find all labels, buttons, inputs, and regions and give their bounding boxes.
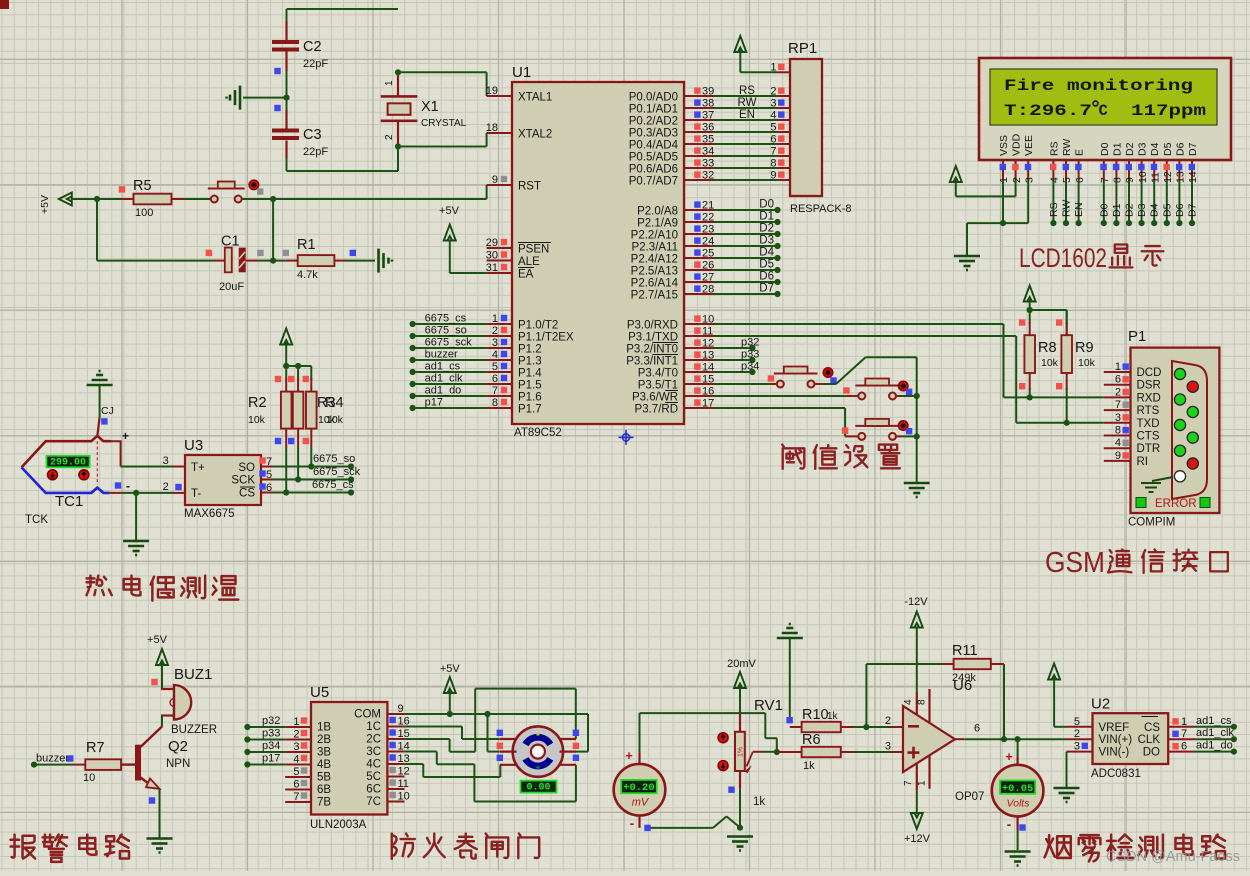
svg-text:OP07: OP07 [955, 791, 984, 803]
pin-end marker [274, 105, 280, 111]
svg-text:P0.4/AD4: P0.4/AD4 [629, 140, 679, 152]
svg-text:7: 7 [266, 456, 272, 468]
pin-end marker [644, 825, 650, 831]
wire 2C net [404, 689, 576, 752]
label smoke [1045, 835, 1225, 862]
label GSM [1045, 547, 1228, 579]
label CJ [101, 405, 114, 417]
node [774, 749, 780, 755]
svg-text:6: 6 [492, 373, 498, 385]
svg-text:-: - [1007, 816, 1012, 832]
svg-text:5: 5 [492, 361, 498, 373]
pin-end marker [151, 679, 157, 685]
svg-text:p34: p34 [262, 740, 280, 752]
net D0 [714, 199, 781, 214]
net D2 [714, 223, 781, 238]
svg-text:ad1_clk: ad1_clk [1196, 727, 1234, 739]
svg-text:10k: 10k [1041, 357, 1059, 369]
svg-text:R11: R11 [952, 643, 978, 659]
svg-text:27: 27 [702, 271, 714, 283]
svg-text:4: 4 [1049, 177, 1061, 183]
svg-text:R7: R7 [86, 740, 105, 756]
svg-text:D6: D6 [1174, 142, 1186, 156]
wire [866, 726, 903, 728]
capacitor C1 [213, 234, 258, 294]
ground [123, 541, 149, 555]
svg-text:100: 100 [135, 207, 153, 219]
wire [398, 133, 487, 147]
svg-text:33: 33 [702, 157, 714, 169]
svg-text:TC1: TC1 [55, 493, 83, 510]
wire [287, 147, 399, 172]
svg-text:XTAL1: XTAL1 [518, 92, 552, 104]
svg-text:P2.1/A9: P2.1/A9 [637, 218, 678, 230]
wire [866, 664, 941, 727]
svg-text:+5V: +5V [440, 663, 461, 675]
svg-text:EA: EA [518, 269, 534, 281]
power +5V [440, 663, 461, 693]
svg-text:U6: U6 [953, 677, 972, 694]
node 6675_cs [410, 313, 487, 328]
wire [159, 789, 161, 838]
svg-text:D3: D3 [759, 235, 774, 247]
svg-text:E: E [1074, 149, 1086, 156]
net D3 [714, 235, 781, 250]
wire [916, 790, 918, 813]
svg-text:15: 15 [702, 373, 714, 385]
node ad1_clk [410, 373, 487, 388]
svg-text:D2: D2 [759, 223, 774, 235]
svg-text:p33: p33 [262, 728, 280, 740]
svg-text:DCD: DCD [1137, 367, 1162, 379]
svg-text:3: 3 [885, 741, 891, 753]
pin-end marker [830, 377, 836, 383]
pin-end marker [768, 375, 774, 381]
svg-text:6675_so: 6675_so [313, 453, 355, 465]
wire [814, 357, 916, 482]
svg-text:COM: COM [354, 709, 381, 721]
svg-text:3C: 3C [366, 746, 381, 758]
node [270, 258, 276, 264]
svg-text:P0.2/AD2: P0.2/AD2 [629, 116, 678, 128]
wire [72, 198, 122, 200]
label - [126, 479, 130, 493]
svg-text:1: 1 [293, 716, 299, 728]
svg-text:RW: RW [1061, 200, 1073, 217]
net RW [738, 97, 757, 109]
svg-text:ULN2003A: ULN2003A [310, 819, 367, 831]
svg-text:34: 34 [702, 145, 714, 157]
svg-text:1B: 1B [317, 722, 331, 734]
wire 3C net [404, 752, 576, 802]
svg-text:R2: R2 [248, 395, 267, 411]
svg-text:D6: D6 [1174, 203, 1186, 217]
svg-text:U3: U3 [184, 437, 203, 454]
op-amp U6 OP07 [903, 677, 984, 803]
svg-text:9: 9 [1115, 450, 1121, 462]
wire [450, 241, 487, 274]
svg-text:3B: 3B [317, 747, 331, 759]
svg-text:RS: RS [739, 85, 755, 97]
button actuator [899, 381, 908, 390]
LCD display LM016L [979, 58, 1231, 183]
net 6675_so [273, 453, 355, 470]
svg-text:VDD: VDD [1011, 133, 1023, 156]
node p17 [410, 397, 487, 412]
net D5 [1161, 180, 1173, 226]
svg-text:P3.7/RD: P3.7/RD [635, 404, 678, 416]
pin-end marker [573, 730, 579, 761]
svg-text:+: + [625, 748, 633, 763]
ground (ref) [777, 624, 803, 638]
resistor R3 [293, 366, 336, 480]
svg-text:5: 5 [1074, 716, 1080, 728]
net p33 [244, 728, 285, 743]
net p33 [714, 349, 759, 364]
svg-text:C1: C1 [221, 234, 240, 250]
svg-text:6: 6 [1181, 741, 1187, 753]
svg-text:25: 25 [702, 247, 714, 259]
ground [379, 249, 393, 273]
svg-text:20uF: 20uF [219, 281, 244, 293]
pin-end marker [275, 438, 309, 444]
wire [488, 714, 500, 752]
node [308, 463, 314, 469]
svg-text:buzzer: buzzer [36, 753, 69, 765]
wire 1C net [404, 727, 499, 740]
wire 4C net [404, 764, 500, 777]
svg-text:6675_so: 6675_so [425, 325, 467, 337]
ground [1005, 852, 1031, 866]
svg-text:26: 26 [702, 259, 714, 271]
svg-text:10k: 10k [248, 414, 266, 426]
node [283, 489, 289, 495]
svg-text:P3.5/T1: P3.5/T1 [638, 380, 678, 392]
node [484, 711, 490, 717]
pin-end marker [115, 482, 121, 488]
svg-text:12: 12 [702, 337, 714, 349]
svg-text:9: 9 [770, 169, 776, 181]
svg-text:ad1_cs: ad1_cs [425, 361, 461, 373]
svg-text:10: 10 [83, 772, 95, 784]
svg-text:COMPIM: COMPIM [1128, 517, 1175, 529]
pin-end marker [119, 186, 125, 192]
wire [714, 131, 777, 133]
net D1 [714, 211, 781, 226]
svg-text:P3.0/RXD: P3.0/RXD [627, 320, 678, 332]
svg-text:8: 8 [492, 397, 498, 409]
svg-text:p33: p33 [741, 349, 759, 361]
svg-text:T+: T+ [191, 462, 205, 474]
svg-text:10: 10 [398, 791, 410, 803]
net D7 [714, 283, 781, 298]
svg-text:P2.3/A11: P2.3/A11 [632, 242, 678, 254]
wire [286, 366, 311, 380]
svg-text:+: + [1005, 749, 1013, 764]
svg-text:p17: p17 [262, 753, 280, 765]
resistor R8 [1024, 310, 1058, 397]
resistor R7 [73, 740, 121, 784]
svg-text:7C: 7C [366, 796, 381, 808]
svg-text:p32: p32 [262, 715, 280, 727]
svg-text:6: 6 [974, 723, 980, 735]
svg-text:16: 16 [702, 385, 714, 397]
stepper motor [500, 726, 576, 776]
svg-text:2: 2 [1011, 177, 1023, 183]
pin-end marker [1056, 319, 1062, 325]
label alarm [11, 835, 129, 862]
pin-end marker [786, 717, 792, 723]
svg-text:6C: 6C [366, 784, 381, 796]
svg-text:P1.4: P1.4 [518, 368, 542, 380]
svg-text:9: 9 [1124, 177, 1136, 183]
svg-text:RESPACK-8: RESPACK-8 [790, 203, 852, 215]
wire [714, 119, 777, 121]
svg-text:22pF: 22pF [303, 58, 328, 70]
pin-end marker [67, 755, 73, 761]
svg-text:39: 39 [702, 85, 714, 97]
svg-text:BUZ1: BUZ1 [174, 666, 212, 683]
pin-end marker [149, 797, 155, 803]
node [395, 143, 401, 149]
svg-text:1k: 1k [827, 711, 839, 722]
svg-text:2: 2 [1115, 386, 1121, 398]
pin number 2 [885, 715, 891, 727]
svg-text:11: 11 [702, 325, 713, 337]
wire [714, 95, 777, 97]
wire [714, 155, 777, 157]
ground [1054, 788, 1080, 802]
net ad1_cs [1194, 715, 1237, 730]
svg-text:D2: D2 [1124, 142, 1136, 156]
node buzzer [410, 349, 487, 364]
wire [640, 713, 777, 764]
svg-text:4: 4 [293, 754, 299, 766]
net RS [739, 85, 755, 97]
svg-text:P0.3/AD3: P0.3/AD3 [629, 128, 678, 140]
svg-text:1k: 1k [753, 796, 765, 808]
wire [258, 260, 286, 262]
svg-text:7: 7 [1115, 399, 1121, 411]
svg-text:37: 37 [702, 109, 714, 121]
svg-text:P0.5/AD5: P0.5/AD5 [629, 152, 678, 164]
svg-text:7: 7 [1181, 728, 1187, 740]
svg-text:P2.4/A12: P2.4/A12 [631, 254, 678, 266]
svg-text:2: 2 [1074, 728, 1080, 740]
svg-text:U1: U1 [512, 64, 531, 81]
svg-text:ADC0831: ADC0831 [1091, 768, 1141, 780]
pin-end marker [497, 730, 503, 761]
svg-text:P1.7: P1.7 [518, 404, 542, 416]
pin-end marker [283, 250, 289, 256]
svg-text:DTR: DTR [1137, 443, 1161, 455]
svg-text:mV: mV [632, 797, 650, 809]
net buzzer [31, 753, 73, 768]
svg-text:+0.05: +0.05 [1002, 783, 1034, 795]
node [283, 95, 289, 101]
svg-text:6: 6 [1115, 374, 1121, 386]
node [295, 476, 301, 482]
svg-text:Volts: Volts [1007, 798, 1031, 810]
svg-text:CJ: CJ [101, 405, 114, 417]
svg-text:+12V: +12V [904, 833, 931, 845]
node [1015, 736, 1021, 742]
corner mark [0, 0, 9, 9]
node [133, 490, 139, 496]
svg-text:2: 2 [770, 85, 776, 97]
svg-text:P2.2/A10: P2.2/A10 [631, 230, 678, 242]
node [914, 433, 920, 439]
svg-text:10k: 10k [1078, 357, 1096, 369]
svg-text:11: 11 [398, 778, 409, 790]
node [395, 69, 401, 75]
svg-text:2: 2 [885, 715, 891, 727]
svg-text:35: 35 [702, 133, 714, 145]
wire [184, 198, 211, 200]
wire [286, 71, 288, 98]
label thermocouple [87, 576, 239, 601]
pin-end marker [1019, 319, 1025, 325]
wire [789, 638, 791, 720]
svg-text:p34: p34 [741, 361, 759, 373]
svg-text:6675_cs: 6675_cs [312, 479, 354, 491]
resistor pack RP1 RESPACK-8 [770, 40, 851, 215]
svg-text:buzzer: buzzer [425, 349, 458, 361]
node [283, 363, 289, 369]
svg-text:10: 10 [1137, 171, 1149, 183]
svg-text:2C: 2C [366, 734, 381, 746]
svg-text:DSR: DSR [1137, 380, 1161, 392]
net D1 [1111, 180, 1123, 226]
wire [714, 383, 771, 385]
svg-text:1: 1 [998, 177, 1010, 183]
darlington array U5 ULN2003A [285, 684, 410, 831]
svg-text:P3.3/INT1: P3.3/INT1 [626, 356, 678, 368]
svg-text:+5V: +5V [439, 205, 460, 217]
svg-text:2: 2 [163, 481, 169, 493]
svg-text:299.00: 299.00 [50, 457, 86, 468]
svg-text:D1: D1 [1111, 142, 1123, 156]
svg-text:CS: CS [239, 488, 255, 500]
svg-text:D1: D1 [759, 211, 774, 223]
buzzer BUZ1 [161, 666, 217, 736]
power +5V [147, 634, 168, 665]
pin-end marker [257, 250, 263, 256]
ground [727, 837, 753, 851]
wire [449, 690, 451, 714]
ADC U2 ADC0831 [1067, 696, 1195, 781]
wire [853, 751, 903, 753]
svg-text:21: 21 [702, 199, 714, 211]
svg-text:CS: CS [1144, 722, 1160, 734]
svg-text:4: 4 [770, 109, 776, 121]
svg-text:8: 8 [1112, 177, 1124, 183]
button (threshold B) [846, 379, 899, 400]
pin-end marker [206, 250, 212, 256]
svg-text:Fire monitoring: Fire monitoring [1004, 77, 1193, 95]
svg-text:R8: R8 [1038, 340, 1057, 356]
svg-text:-12V: -12V [904, 596, 928, 608]
svg-text:P2.6/A14: P2.6/A14 [631, 278, 679, 290]
net 6675_cs [273, 479, 354, 496]
adjuster up [718, 733, 728, 743]
svg-text:1C: 1C [366, 721, 381, 733]
svg-text:P1: P1 [1128, 328, 1146, 345]
svg-text:D5: D5 [1162, 142, 1174, 156]
svg-text:-: - [630, 815, 635, 831]
crystal X1 [381, 72, 467, 146]
svg-text:6675_cs: 6675_cs [425, 313, 467, 325]
ground [904, 483, 930, 497]
wire [739, 685, 741, 713]
svg-text:D0: D0 [1098, 203, 1110, 217]
pin-end marker [257, 188, 263, 194]
svg-text:C2: C2 [303, 39, 322, 55]
voltmeter (Volts) [992, 749, 1044, 832]
wire [714, 107, 777, 109]
svg-text:C: C [1099, 102, 1108, 120]
transistor Q2 [121, 727, 190, 789]
wire [714, 179, 777, 181]
power +5V [280, 329, 292, 367]
label fire door [392, 834, 539, 859]
svg-text:12: 12 [398, 766, 410, 778]
svg-text:6: 6 [266, 482, 272, 494]
pin-end marker [843, 387, 849, 393]
button (reset) [208, 182, 245, 203]
svg-text:XTAL2: XTAL2 [518, 129, 552, 141]
label LCD1602 [1019, 243, 1163, 273]
svg-text:D7: D7 [1187, 203, 1199, 217]
svg-text:D5: D5 [759, 259, 774, 271]
svg-text:+5V: +5V [39, 195, 51, 214]
node [1001, 736, 1007, 742]
svg-text:D3: D3 [1137, 142, 1149, 156]
svg-text:NPN: NPN [166, 758, 190, 770]
ground [147, 839, 173, 853]
svg-text:TCK: TCK [25, 514, 48, 526]
wire [714, 167, 777, 169]
net D2 [1124, 180, 1136, 226]
svg-text:30: 30 [486, 250, 498, 262]
svg-text:17: 17 [702, 397, 714, 409]
svg-text:ad1_do: ad1_do [1196, 740, 1233, 752]
svg-text:D4: D4 [1149, 142, 1161, 156]
ground (CJ) [87, 371, 113, 385]
label threshold [782, 445, 900, 469]
net p17 [244, 753, 285, 768]
svg-text:CSDN @Amu-Faoss: CSDN @Amu-Faoss [1106, 849, 1240, 865]
svg-text:P3.6/WR: P3.6/WR [632, 392, 678, 404]
wire [1066, 752, 1068, 787]
node [1027, 394, 1033, 400]
svg-text:D2: D2 [1124, 203, 1136, 217]
svg-text:CLK: CLK [1138, 734, 1161, 746]
svg-text:5: 5 [770, 121, 776, 133]
svg-text:VIN(+): VIN(+) [1099, 734, 1133, 746]
net RS [1048, 180, 1060, 226]
svg-text:4: 4 [903, 699, 914, 705]
wire [896, 435, 917, 437]
wire [714, 408, 845, 436]
svg-text:3: 3 [1115, 412, 1121, 424]
ground [227, 86, 287, 110]
svg-text:6675_sck: 6675_sck [425, 337, 473, 349]
node 6675_so [410, 325, 487, 340]
wire [242, 185, 487, 199]
svg-text:Q2: Q2 [168, 738, 188, 755]
svg-text:D7: D7 [759, 283, 774, 295]
